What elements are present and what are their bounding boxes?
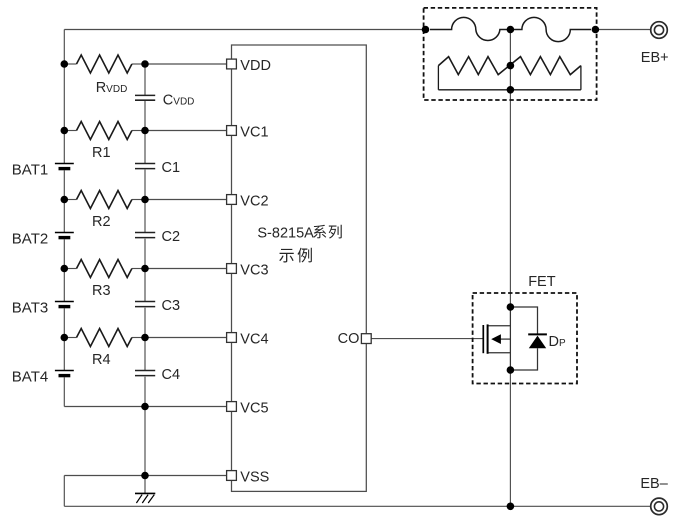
battery BAT3: [55, 302, 74, 307]
pin VSS square: [227, 471, 237, 481]
wire capacitor column segment 2: [144, 100, 146, 163]
node heater center: [507, 62, 515, 70]
heater resistor element: [438, 57, 581, 75]
svg-text:EB–: EB–: [640, 476, 668, 492]
terminal EB+ inner circle: [654, 25, 663, 34]
wire capacitor column segment 4: [144, 239, 146, 302]
node heater bottom: [507, 86, 515, 94]
transistor Q1 drain stub: [489, 325, 511, 327]
svg-text:VC1: VC1: [240, 125, 268, 141]
svg-text:VC2: VC2: [240, 194, 268, 210]
wire main vertical FET-to-bottom rail: [509, 370, 511, 506]
svg-text:CO: CO: [338, 331, 360, 347]
terminal EB+ outer circle: [651, 22, 668, 39]
wire VDD row dot-to-resistor: [64, 63, 76, 65]
transistor Q1 source stub: [489, 352, 511, 354]
wire VC1 row dot-to-resistor: [64, 130, 76, 132]
svg-text:C3: C3: [162, 298, 181, 314]
pin VC2 square: [227, 195, 237, 205]
capacitor C2: [135, 233, 155, 238]
svg-text:BAT2: BAT2: [12, 231, 48, 248]
node VC4 left: [61, 334, 69, 342]
wire bottom rail to EB-: [64, 505, 651, 507]
transistor Q1 body stub: [501, 338, 511, 340]
pin CO square: [361, 334, 371, 344]
svg-text:C2: C2: [162, 229, 181, 245]
svg-text:VDD: VDD: [240, 58, 271, 74]
wire left battery column segment 2: [63, 170, 65, 232]
wire VC2 row resistor-to-cap-column: [132, 199, 145, 201]
IC U1 S-8215A outline: [232, 45, 367, 491]
node VC3 left: [61, 265, 69, 273]
node VDD cap: [141, 60, 149, 68]
battery BAT1: [55, 164, 74, 169]
svg-text:CVDD: CVDD: [163, 93, 195, 109]
thermal fuse F1 element 1: [430, 17, 510, 40]
svg-text:VSS: VSS: [240, 470, 269, 486]
svg-text:C4: C4: [162, 367, 181, 383]
node FET drain: [507, 303, 515, 311]
wire VC4 row to pin: [145, 337, 232, 339]
diode DP bottom lead: [510, 348, 537, 370]
capacitor C3: [135, 302, 155, 307]
wire capacitor column segment 3: [144, 170, 146, 233]
svg-text:R1: R1: [92, 145, 111, 161]
wire capacitor column segment 6: [144, 377, 146, 476]
thermal fuse F1 element 2: [510, 17, 591, 41]
pin VC5 square: [227, 402, 237, 412]
heater resistor right lead: [580, 66, 582, 90]
wire VC4 row dot-to-resistor: [64, 337, 76, 339]
label IC subtitle example: [279, 249, 294, 263]
svg-text:C1: C1: [162, 160, 181, 176]
node VC1 left: [61, 127, 69, 135]
svg-text:DP: DP: [549, 334, 566, 350]
heater resistor bottom bar: [438, 89, 581, 91]
wire left battery column segment 5: [63, 377, 65, 406]
wire VC1 row resistor-to-cap-column: [132, 130, 145, 132]
svg-text:R3: R3: [92, 283, 111, 299]
node VC2 left: [61, 196, 69, 204]
svg-text:VC3: VC3: [240, 263, 268, 279]
capacitor CVDD: [135, 95, 155, 100]
node VDD left: [61, 60, 69, 68]
wire VC2 row to pin: [145, 199, 232, 201]
terminal EB- outer circle: [651, 498, 668, 515]
wire FET internal vertical: [509, 307, 511, 370]
wire VSS row to pin: [64, 475, 231, 477]
wire VC3 row resistor-to-cap-column: [132, 268, 145, 270]
wire VSS left drop: [63, 476, 65, 507]
resistor R2: [77, 191, 132, 209]
node VC5 cap: [141, 403, 149, 411]
wire capacitor column segment 5: [144, 308, 146, 371]
wire ground stub: [144, 476, 146, 494]
diode DP top lead: [510, 307, 537, 334]
node bottom rail: [507, 503, 515, 511]
transistor Q1 body arrow: [491, 334, 501, 344]
pin VC4 square: [227, 333, 237, 343]
ground symbol: [135, 493, 155, 503]
capacitor C4: [135, 371, 155, 376]
node FET source: [507, 366, 515, 374]
node VSS ground: [141, 472, 149, 480]
diode DP cathode bar: [528, 333, 547, 335]
pin VDD square: [227, 59, 237, 69]
node VC2 cap: [141, 196, 149, 204]
wire VC3 row dot-to-resistor: [64, 268, 76, 270]
wire VC2 row dot-to-resistor: [64, 199, 76, 201]
wire left battery column segment 3: [63, 239, 65, 301]
wire VC3 row to pin: [145, 268, 232, 270]
wire CO to FET gate: [371, 338, 483, 340]
node VC4 cap: [141, 334, 149, 342]
node VC3 cap: [141, 265, 149, 273]
pin VC3 square: [227, 264, 237, 274]
wire protector center tap: [509, 30, 511, 90]
svg-text:VC4: VC4: [240, 332, 268, 348]
resistor R3: [77, 260, 132, 278]
wire protector output to EB+ terminal: [595, 29, 651, 31]
svg-text:EB+: EB+: [641, 50, 669, 66]
battery BAT2: [55, 233, 74, 238]
wire main vertical protector-to-FET: [509, 90, 511, 307]
wire VC5 row to pin: [145, 406, 232, 408]
node protector center: [507, 26, 515, 34]
svg-text:R4: R4: [92, 352, 111, 368]
resistor RVDD: [77, 55, 132, 73]
svg-text:VC5: VC5: [240, 401, 268, 417]
capacitor C1: [135, 164, 155, 169]
wire left battery column segment 1: [63, 30, 65, 164]
svg-text:R2: R2: [92, 214, 111, 230]
wire top rail from battery stack to protector: [64, 29, 425, 31]
wire left battery column segment 4: [63, 308, 65, 370]
wire capacitor column segment 1: [144, 64, 146, 95]
wire VC1 row to pin: [145, 130, 232, 132]
heater resistor left lead: [437, 66, 439, 90]
svg-text:BAT4: BAT4: [12, 369, 48, 386]
terminal EB- inner circle: [654, 502, 663, 511]
transistor Q1 gate bar: [482, 325, 484, 353]
node protector in: [422, 26, 430, 34]
wire VDD row to pin: [145, 63, 232, 65]
svg-text:BAT3: BAT3: [12, 300, 48, 317]
wire VC5 row left elbow: [64, 406, 145, 408]
pin VC1 square: [227, 126, 237, 136]
resistor R1: [77, 122, 132, 140]
diode DP triangle: [529, 336, 546, 349]
svg-text:S-8215A: S-8215A: [257, 225, 314, 241]
svg-text:RVDD: RVDD: [96, 80, 128, 96]
FET dashed box: [473, 293, 577, 384]
protector dashed box: [424, 8, 597, 100]
transistor Q1 channel bar: [487, 324, 489, 353]
battery BAT4: [55, 371, 74, 376]
node protector out: [592, 26, 600, 34]
svg-text:BAT1: BAT1: [12, 162, 48, 179]
wire VC4 row resistor-to-cap-column: [132, 337, 145, 339]
node VC1 cap: [141, 127, 149, 135]
wire VDD row resistor-to-cap-column: [132, 63, 145, 65]
resistor R4: [77, 329, 132, 347]
svg-text:FET: FET: [528, 274, 556, 290]
